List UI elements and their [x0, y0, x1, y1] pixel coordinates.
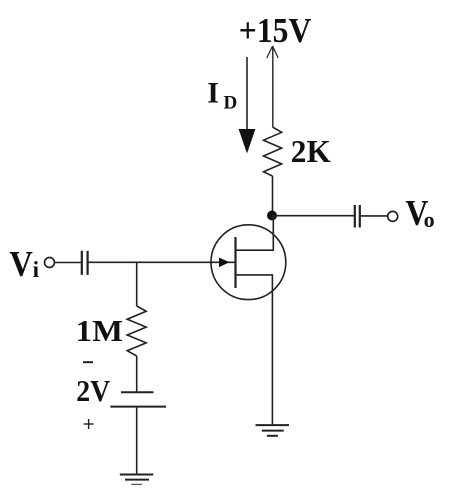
svg-text:D: D	[224, 93, 238, 114]
svg-text:+15V: +15V	[239, 11, 311, 50]
transistor Q1 body	[211, 225, 286, 300]
ground source	[256, 425, 290, 436]
label minus	[83, 361, 93, 363]
wire Vi terminal to input capacitor	[55, 262, 81, 264]
label Vo	[405, 193, 434, 233]
svg-text:I: I	[207, 77, 219, 110]
transistor Q1 channel bar	[234, 237, 236, 288]
wire battery to ground	[136, 407, 138, 475]
wire supply to resistor	[272, 46, 274, 127]
resistor RG 1M	[127, 306, 146, 356]
wire resistor to drain node	[272, 176, 274, 216]
transistor Q1 source lead	[236, 275, 273, 425]
battery 2V bottom plate	[110, 406, 166, 408]
wire drain node to output capacitor	[272, 215, 354, 217]
svg-text:o: o	[424, 207, 435, 232]
resistor RD 2K	[264, 127, 282, 176]
label plus	[84, 419, 94, 429]
svg-text:i: i	[33, 257, 40, 282]
wire resistor 1M to battery	[136, 356, 138, 392]
svg-text:V: V	[9, 244, 33, 284]
node drain junction	[267, 211, 277, 221]
current arrow ID	[239, 57, 256, 154]
svg-text:1M: 1M	[76, 313, 123, 348]
svg-text:2K: 2K	[291, 133, 331, 169]
label Vi	[9, 244, 39, 284]
svg-text:2V: 2V	[76, 373, 111, 408]
wire gate node to resistor 1M	[136, 262, 138, 306]
power arrow +15V	[267, 46, 278, 58]
capacitor output	[355, 205, 360, 228]
label ID	[207, 77, 237, 114]
wire capacitor to Vo terminal	[361, 215, 387, 217]
capacitor input	[82, 251, 88, 275]
terminal Vi	[45, 258, 55, 268]
gate arrowhead	[219, 258, 230, 268]
battery 2V top plate	[121, 391, 154, 393]
ground battery	[120, 475, 154, 485]
terminal Vo	[388, 211, 398, 221]
transistor Q1 drain lead	[236, 216, 274, 251]
wire gate	[88, 261, 236, 263]
